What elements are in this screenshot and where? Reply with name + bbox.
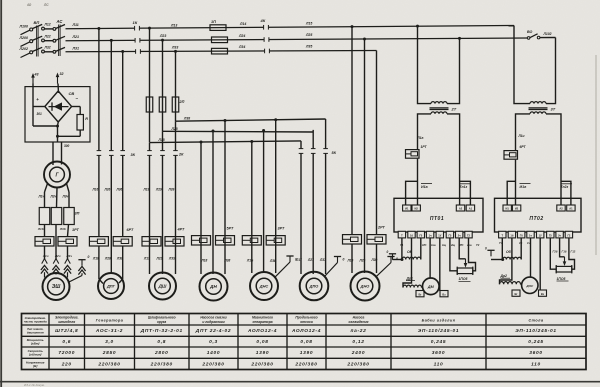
wire DN phase 2 (212, 131, 214, 274)
fuse 1P phase 3 (212, 48, 228, 54)
svg-text:Г2б: Г2б (553, 250, 558, 254)
svg-text:Л1б: Л1б (37, 227, 44, 231)
svg-text:3,0: 3,0 (105, 339, 114, 345)
motor DPO (300, 272, 329, 301)
PT01 bottom terminal 2ч (456, 231, 463, 238)
node Л100 input stub (21, 30, 31, 35)
PT01 bottom terminal Г2 (465, 231, 472, 238)
node 0 terminal ESh (78, 259, 85, 261)
contactor AC blade phase 1 (56, 25, 65, 29)
wire PT01 sync pair (460, 181, 471, 205)
wire DSh phase 1 lower (149, 143, 151, 274)
svg-text:Стола: Стола (529, 318, 544, 322)
svg-text:ПТ01: ПТ01 (430, 216, 444, 222)
svg-text:ДНО: ДНО (360, 284, 370, 289)
switch VP fixed contact phase 1 (42, 27, 45, 30)
wire terminal4 to DOS (530, 238, 532, 277)
brush terminal Vg (416, 291, 424, 297)
contactor 3K gap phase 3 (120, 150, 125, 155)
PT01 top terminal И2 (412, 205, 420, 211)
svg-text:2Т: 2Т (451, 107, 457, 112)
wire PT02 exciter pair (515, 160, 517, 205)
node 0 terminal PT02 (487, 249, 494, 251)
wire L28 distribution (163, 130, 314, 133)
svg-text:Л1ч: Л1ч (42, 254, 49, 258)
svg-text:охлаждения: охлаждения (349, 320, 369, 324)
potentiometer 1PO5 (457, 268, 473, 274)
wire L18 distribution (150, 141, 302, 143)
wire ESh phase 1 (44, 225, 46, 237)
thermal relay 4RT right (165, 237, 184, 246)
wire DPO phase 2 (312, 130, 314, 274)
svg-text:А1: А1 (469, 207, 473, 211)
svg-text:И1: И1 (506, 207, 510, 211)
plug pin phase 3 (64, 265, 71, 270)
svg-text:220/380: 220/380 (201, 361, 224, 367)
transformer 2T core (430, 107, 449, 109)
transformer 2T secondary (431, 112, 447, 114)
svg-text:220: 220 (61, 361, 72, 367)
svg-text:3600: 3600 (432, 350, 445, 356)
svg-text:ЛС: ЛС (43, 3, 49, 7)
wire bus L31 (66, 51, 377, 52)
motor DOS (522, 277, 538, 293)
svg-text:32: 32 (60, 72, 64, 76)
wire ESh phase 2 (55, 225, 57, 260)
junction L38 / DNS (274, 118, 277, 121)
inductor Dr2 (500, 282, 521, 285)
svg-text:2щ: 2щ (450, 243, 456, 247)
svg-text:2ч: 2ч (558, 234, 561, 238)
svg-text:0,12: 0,12 (352, 339, 364, 345)
contactor AC linkage (58, 25, 60, 57)
svg-text:ДПО: ДПО (309, 284, 319, 289)
thermal relay 1RT PT01 (406, 150, 420, 159)
svg-text:Л23: Л23 (159, 34, 166, 38)
svg-text:110: 110 (434, 361, 444, 367)
svg-text:220/380: 220/380 (250, 361, 273, 367)
wire DNS phase 2 (263, 130, 265, 273)
wire 3T primary right lead (546, 38, 556, 104)
PT01 bottom terminal 1У (436, 231, 443, 238)
wire DSh phase 2 lower (162, 132, 164, 274)
junction bus L11 / 2T (416, 25, 419, 28)
rectifier unit box (25, 87, 90, 142)
transformer 2T primary (431, 102, 447, 104)
svg-text:1щ: 1щ (442, 243, 447, 247)
PT02 bottom terminal Г5 (547, 231, 554, 238)
wire DNO phase 1 (351, 27, 353, 235)
svg-text:и гидравлики: и гидравлики (202, 320, 224, 324)
svg-text:0,08: 0,08 (256, 339, 268, 345)
svg-text:Л102: Л102 (543, 32, 552, 36)
wire terminal5 to brush (439, 238, 441, 291)
wire DSh phase 2 upper (162, 40, 164, 131)
wire bus L11 (66, 26, 515, 29)
junction bus L31 / DPG (121, 50, 124, 53)
svg-text:Г1б: Г1б (562, 250, 567, 254)
svg-text:Л2ч: Л2ч (50, 195, 57, 199)
wire OV to 0 terminal (393, 259, 403, 261)
wire terminal6 to pot (450, 238, 457, 271)
svg-text:ДМ: ДМ (427, 285, 435, 289)
contactor AC pivot phase 2 (53, 39, 56, 42)
wire ESh phase 1 to plug (44, 246, 46, 259)
svg-text:Т2: Т2 (476, 243, 480, 247)
wire DNS phase 1 (251, 141, 253, 273)
svg-text:Л25: Л25 (305, 33, 312, 37)
svg-text:Л13: Л13 (170, 24, 177, 28)
motor DNO (351, 272, 380, 301)
svg-text:1РТ: 1РТ (421, 145, 428, 149)
svg-text:3К: 3К (131, 153, 136, 157)
svg-text:А2: А2 (459, 207, 463, 211)
svg-text:круга: круга (157, 320, 166, 324)
wire 32 arrow (57, 76, 59, 84)
wire DNS neutral diagonal (275, 262, 290, 277)
wire L38 distribution (176, 119, 326, 121)
svg-text:5К: 5К (332, 151, 337, 155)
wire DM to Vg (423, 292, 426, 293)
contactor 5K gap phase 3 (323, 148, 328, 153)
svg-text:0: 0 (343, 258, 345, 262)
wire DPG phase 1 (98, 28, 100, 236)
svg-text:1К: 1К (133, 20, 138, 25)
junction bus L11 / DNO (351, 25, 354, 28)
switch VP fixed contact phase 2 (42, 39, 45, 42)
inductor Dr1 (403, 285, 422, 287)
fuse 3P phase 2 (51, 208, 62, 225)
wire bridge bottom lead (57, 122, 60, 126)
svg-text:Л38: Л38 (183, 116, 190, 120)
wire OV right to terminal (420, 238, 422, 260)
diode inside bridge (49, 106, 69, 108)
svg-text:И2: И2 (515, 207, 519, 211)
sheet frame left edge (0, 0, 2, 387)
svg-text:Л3б: Л3б (59, 227, 66, 231)
svg-text:Л28: Л28 (171, 127, 178, 131)
svg-text:Л2S: Л2S (156, 257, 164, 261)
thermal relay 6RT PT02 (504, 151, 518, 160)
svg-text:И1в: И1в (520, 185, 528, 189)
motor ESh (43, 273, 70, 300)
wire 2T secondary right lead (447, 114, 460, 205)
svg-text:ПТ02: ПТ02 (529, 216, 543, 222)
svg-text:Л17: Л17 (295, 258, 302, 262)
svg-text:Л11: Л11 (72, 23, 79, 27)
transformer 3T primary (530, 102, 546, 104)
wire 3T secondary right lead (546, 114, 561, 205)
svg-text:0: 0 (387, 250, 389, 254)
svg-text:отсоса: отсоса (300, 320, 313, 324)
terminal circle Л202 (30, 51, 33, 54)
wire DPG phase 3 (122, 52, 124, 237)
contactor 1K gap phase 2 (135, 38, 140, 43)
svg-text:Л18: Л18 (158, 138, 165, 142)
svg-text:Л33: Л33 (171, 45, 178, 49)
svg-text:ДПТ 22-4-02: ДПТ 22-4-02 (195, 328, 231, 334)
svg-text:3600: 3600 (529, 350, 542, 356)
PT02 bottom terminal Г2 (565, 231, 572, 238)
svg-text:шпинделя: шпинделя (58, 320, 75, 324)
wire DPO phase 3 (325, 119, 327, 274)
svg-text:Тп1з: Тп1з (460, 185, 468, 189)
wire bridge minus lead (72, 106, 81, 108)
svg-text:ШТ2/4,8: ШТ2/4,8 (55, 328, 78, 334)
switch VP fixed contact phase 3 (42, 50, 45, 53)
svg-text:Л25: Л25 (359, 259, 366, 263)
wire DNO phase 3 lower (376, 244, 378, 273)
wire OV to 0 PT02 (491, 259, 503, 261)
svg-text:Л38: Л38 (116, 257, 123, 261)
junction L18 / DNS (250, 140, 253, 143)
wire G phase 3 (67, 184, 70, 193)
wire terminal7 wiper PT02 (560, 238, 565, 257)
wire DSh phase 3 lower (175, 121, 177, 274)
wire DNO neutral diagonal (376, 263, 391, 277)
svg-text:220/380: 220/380 (294, 361, 317, 367)
wire terminal7 wiper (459, 238, 465, 259)
PT01 top terminal А2 (456, 205, 464, 211)
svg-text:И2: И2 (415, 207, 419, 211)
junction bus L11 / DPG (97, 27, 100, 30)
PT01 top terminal А1 (466, 205, 474, 211)
node 0 terminal DPO (334, 256, 341, 258)
switch VP blade phase 2 (32, 36, 42, 40)
wire bus L21 (66, 38, 528, 41)
svg-text:ЭП-110/245-01: ЭП-110/245-01 (418, 328, 460, 334)
svg-text:1У: 1У (438, 234, 441, 238)
PT02 bottom terminal Г0 (518, 231, 525, 238)
PT02 bottom terminal Т (499, 231, 506, 238)
svg-text:АС: АС (56, 19, 64, 24)
svg-text:Л24: Л24 (238, 34, 245, 38)
wire 2T primary left lead (418, 26, 432, 103)
junction bus L21 / DNO (363, 37, 366, 40)
node 0 terminal DNO (387, 256, 394, 258)
thermal relay 1RT right (58, 237, 77, 246)
svg-text:2П: 2П (179, 100, 185, 104)
potentiometer 2PO5 (556, 266, 572, 272)
svg-text:Л19: Л19 (143, 188, 150, 192)
wire 43 arrow (32, 76, 34, 84)
svg-text:Л3S: Л3S (168, 257, 176, 261)
svg-text:1ПО5: 1ПО5 (459, 277, 468, 281)
motor data table grid (22, 314, 587, 370)
junction L28 / DNS (262, 129, 265, 132)
wire DNS phase 3 (275, 120, 277, 273)
svg-text:И1: И1 (405, 207, 409, 211)
svg-text:ДОС: ДОС (525, 284, 534, 288)
svg-text:R: R (85, 117, 88, 121)
svg-text:72000: 72000 (58, 350, 75, 356)
svg-text:Л15: Л15 (305, 21, 312, 25)
junction rectifier output (56, 125, 59, 128)
sheet frame right faint line (595, 55, 597, 255)
wire DNO phase 1 lower (351, 244, 353, 273)
svg-text:4РТ: 4РТ (177, 228, 185, 232)
wire terminal2 to Dr2 (500, 238, 512, 284)
svg-text:301: 301 (37, 112, 43, 116)
fuse 2P phase 3 (172, 97, 179, 112)
svg-text:СВ: СВ (69, 91, 75, 96)
svg-text:ЭШ: ЭШ (52, 284, 61, 290)
PT02 bottom terminal 1У (537, 231, 544, 238)
svg-text:3Т: 3Т (551, 107, 556, 112)
junction bus L21 / 2T (458, 37, 461, 40)
svg-text:5РТ: 5РТ (227, 227, 234, 231)
svg-text:43: 43 (34, 73, 39, 77)
wire PT01 exciter pair (417, 159, 419, 205)
PT01 bottom terminal 1ч (426, 231, 433, 238)
junction L28 / DN (212, 130, 215, 133)
thermal relay 6RT right (113, 237, 132, 246)
svg-text:0,08: 0,08 (300, 339, 312, 345)
node Л202 input stub (21, 53, 31, 58)
wire Л32 (44, 51, 53, 53)
svg-text:2ч: 2ч (458, 234, 461, 238)
wire bridge plus lead (33, 106, 45, 108)
motor DSh (149, 273, 176, 300)
PT02 top terminal И1 (503, 205, 511, 211)
plug socket phase 3 (65, 259, 68, 264)
svg-text:Др1: Др1 (406, 276, 414, 280)
node 0 terminal PT01 (389, 253, 396, 255)
wire terminal4 to DM (429, 238, 431, 278)
wire DSh phase 3 upper (175, 51, 177, 121)
svg-text:1У: 1У (539, 234, 542, 238)
svg-text:0,245: 0,245 (431, 339, 447, 345)
svg-text:ДПГ: ДПГ (106, 284, 116, 289)
wire DNO phase 3 (376, 51, 378, 235)
svg-text:ДНС: ДНС (259, 284, 269, 289)
svg-text:А1: А1 (569, 207, 573, 211)
svg-text:Л3Б: Л3Б (269, 259, 277, 263)
thermal relay 5RT left (192, 236, 211, 245)
wire 2T primary right lead (447, 38, 460, 103)
motor DNS (250, 272, 278, 300)
plug socket phase 1 (42, 259, 45, 264)
terminal circle Л200 (30, 40, 33, 43)
generator G (44, 162, 70, 188)
svg-text:двигателя: двигателя (27, 331, 44, 335)
junction bus L21 / DPG (110, 39, 113, 42)
svg-text:2800: 2800 (154, 350, 168, 356)
motor DPG (98, 273, 124, 299)
svg-text:ИЗ-1 № докум.: ИЗ-1 № докум. (24, 383, 45, 387)
svg-text:Л29: Л29 (155, 188, 162, 192)
thermal relay 3RT left (242, 236, 261, 245)
contactor 2K gap phase 3 (173, 150, 178, 155)
svg-text:Л3ч: Л3ч (66, 254, 73, 258)
svg-text:ВП: ВП (34, 20, 40, 25)
thermal relay 2RT right (367, 235, 386, 244)
svg-text:1П: 1П (211, 20, 216, 24)
wire T1 to OV PT02 (501, 238, 503, 260)
wire Л22 (44, 40, 53, 42)
thermal relay 5RT right (216, 236, 235, 245)
svg-text:Л31: Л31 (72, 46, 79, 50)
PT02 top terminal А2 (557, 205, 565, 211)
plug socket phase 2 (53, 259, 56, 264)
paper grain overlay (0, 0, 1, 1)
thermal relay 6RT left (89, 237, 108, 246)
svg-text:Л38: Л38 (224, 259, 231, 263)
contactor AC blade phase 3 (56, 47, 65, 51)
svg-text:Л14: Л14 (239, 22, 246, 26)
svg-text:2РТ: 2РТ (377, 225, 385, 229)
amplifier unit PT02 box (495, 198, 582, 232)
svg-text:1390: 1390 (256, 350, 269, 356)
thermal relay 1RT left (35, 237, 54, 246)
wire 3T secondary left lead (516, 114, 531, 151)
junction bus L31 / DSh (174, 50, 177, 53)
svg-text:Др2: Др2 (500, 274, 508, 278)
fuse 2P phase 1 (146, 97, 153, 112)
wire terminal2 to Dr1 (403, 238, 412, 288)
junction L38 / DN (224, 119, 227, 122)
fuse 2P phase 2 (159, 97, 166, 112)
field winding OV (402, 257, 421, 259)
wire Dr2 to DOS (521, 283, 522, 285)
svg-text:6РТ: 6РТ (520, 145, 527, 149)
svg-text:Л100: Л100 (19, 24, 28, 28)
PT02 bottom terminal 1ч (527, 231, 534, 238)
svg-text:ДПТ-П-32-2-01: ДПТ-П-32-2-01 (140, 328, 183, 334)
svg-text:Л37: Л37 (319, 258, 326, 262)
junction bus L21 / DSh (161, 39, 164, 42)
svg-text:220/380: 220/380 (150, 361, 173, 367)
wire L102 (540, 37, 556, 39)
svg-text:А2: А2 (559, 207, 563, 211)
svg-text:Л32: Л32 (44, 46, 51, 50)
motor DN (200, 273, 228, 301)
wire DN phase 3 (224, 120, 226, 274)
svg-text:1РТ: 1РТ (72, 228, 79, 232)
svg-text:ЭП-110/245-01: ЭП-110/245-01 (515, 328, 557, 334)
svg-text:Л36: Л36 (116, 188, 123, 192)
svg-text:Л1Б: Л1Б (246, 259, 254, 263)
svg-text:АОС-31-2: АОС-31-2 (95, 328, 123, 334)
wire OV right to terminal PT02 (520, 238, 522, 260)
svg-text:И1а: И1а (421, 185, 428, 189)
switch VO (527, 37, 530, 40)
contactor 1K gap phase 3 (135, 49, 140, 54)
svg-text:Л28: Л28 (104, 257, 111, 261)
wire Dr1 to DM (422, 286, 423, 289)
wire resistor bottom (79, 130, 81, 136)
svg-text:Генератора: Генератора (96, 318, 124, 322)
svg-text:Л1в: Л1в (417, 136, 424, 140)
fuse 1P phase 1 (210, 25, 226, 31)
svg-text:Л34: Л34 (238, 45, 245, 49)
fuse 3P phase 1 (39, 208, 50, 225)
wire DSh phase 1 upper (149, 28, 151, 142)
svg-text:Л16: Л16 (92, 188, 99, 192)
svg-text:1400: 1400 (207, 350, 220, 356)
wire DN phase 1 (200, 142, 202, 274)
PT01 bottom terminal Г0 (417, 231, 424, 238)
wire T1 to OV (401, 238, 403, 260)
svg-text:300: 300 (64, 144, 70, 148)
wire terminal6 to pot PT02 (550, 238, 556, 269)
svg-text:Л21: Л21 (72, 35, 79, 39)
svg-text:1б: 1б (510, 234, 513, 238)
svg-text:220/380: 220/380 (346, 361, 369, 367)
transformer 3T core (529, 107, 548, 109)
plug pin neutral (78, 266, 85, 271)
contactor 4K gap phase 3 (264, 48, 269, 53)
